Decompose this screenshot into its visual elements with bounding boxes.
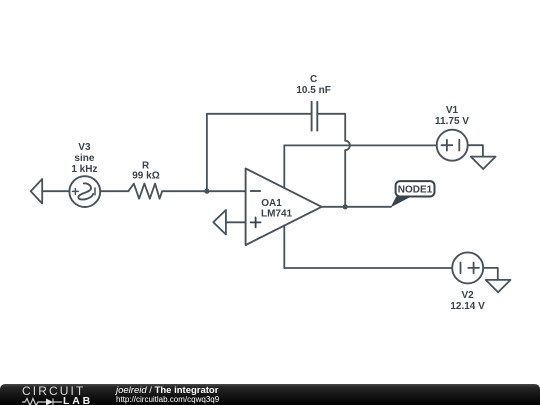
ground GND at + input [213,210,226,235]
ground GND V2 (down) [486,280,511,292]
wire gnd to V3 [42,190,69,192]
wire V- to V2 [284,267,452,269]
NODE1 flag pointer [391,196,412,207]
node junction at R / feedback [204,189,209,194]
label C 10.5 nF [296,74,330,96]
logo resistor glyph [22,399,43,405]
label OA1 LM741 [261,198,293,220]
label V2 12.14 V [450,290,485,312]
ground GND-left (V3 negative) [31,179,43,204]
label R 99 kOhm [132,160,159,181]
svg-text:V2: V2 [461,290,474,301]
capacitor C 10.5 nF [312,102,318,131]
svg-text:10.5 nF: 10.5 nF [296,85,330,96]
svg-text:NODE1: NODE1 [398,185,433,196]
voltage source V1 11.75 V [437,130,468,161]
wire V+ to V1 [284,144,436,146]
wire to capacitor left plate [207,113,312,115]
footer bar [0,384,540,405]
CircuitLab logo [22,386,85,396]
wire cap right plate to corner [317,114,345,141]
wire V1 to ground [468,145,483,156]
label V3 sine 1 kHz [71,142,97,175]
wire R to op-amp inverting input [162,190,245,192]
NODE1 label box [396,181,435,196]
wire junction up to capacitor [206,114,208,191]
svg-text:1 kHz: 1 kHz [71,164,97,175]
voltage source V2 12.14 V [452,252,483,283]
op-amp V- pin wire [283,226,285,268]
wire V3 to R [100,190,128,192]
svg-text:LM741: LM741 [261,209,293,220]
logo diode glyph [46,399,53,405]
resistor R 99k [128,184,162,199]
footer text [116,386,219,404]
voltage source V3 (sine 1 kHz) [69,176,100,207]
wire V2 to ground [483,268,498,280]
svg-text:C: C [310,74,317,85]
op-amp OA1 LM741 triangle [246,169,322,246]
node junction at output [343,204,348,209]
ground GND V1 (down) [471,157,496,169]
wire feedback down to output [344,150,346,207]
wire non-inverting input to ground [226,221,246,223]
svg-text:12.14 V: 12.14 V [450,301,485,312]
svg-text:V3: V3 [78,142,91,153]
svg-text:OA1: OA1 [261,198,282,209]
output wire to NODE1 [322,206,391,208]
wire hop over V1 supply wire [345,141,350,150]
svg-text:11.75 V: 11.75 V [435,116,469,127]
svg-text:sine: sine [74,153,94,164]
op-amp V+ pin wire [283,145,285,188]
svg-text:99 kΩ: 99 kΩ [132,171,159,182]
op-amp plus input mark [251,217,261,227]
op-amp minus input mark [251,190,261,192]
label V1 11.75 V [435,105,469,127]
svg-text:V1: V1 [446,105,459,116]
